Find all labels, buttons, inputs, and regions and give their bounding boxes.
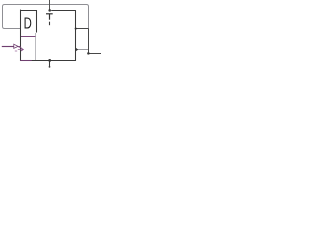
junction clock xyxy=(48,9,51,12)
svg-text:D: D xyxy=(24,15,32,33)
body bottom edge purple part xyxy=(20,60,32,62)
wire stub bottom xyxy=(49,61,51,68)
wire right vertical xyxy=(88,29,90,54)
wire exit right xyxy=(89,53,102,55)
body left edge xyxy=(20,10,22,61)
pin text smudge dash 3 xyxy=(15,50,17,52)
wire arrow tip to body xyxy=(18,46,21,48)
arrowhead input xyxy=(14,44,18,48)
label T bar xyxy=(46,13,53,15)
bar purple xyxy=(21,36,36,38)
pin text smudge dash 1 xyxy=(19,46,22,48)
label T stem xyxy=(49,14,51,20)
wire input purple xyxy=(2,46,14,48)
pin Q base dot xyxy=(75,28,77,30)
D box right edge xyxy=(36,10,38,32)
junction exit xyxy=(87,52,90,55)
label dash below T xyxy=(49,22,51,26)
pin text smudge dash 2 xyxy=(18,49,23,51)
junction bottom xyxy=(48,59,51,62)
pin Q xyxy=(76,28,89,30)
wire light Qbar pin xyxy=(78,49,89,51)
wire feedback loop (Q to D) xyxy=(3,5,89,29)
body right edge xyxy=(75,10,77,61)
body bottom edge gray part xyxy=(32,60,76,62)
body top edge segment 1 xyxy=(20,10,37,12)
chevron Qbar xyxy=(76,48,78,52)
chevron clock purple xyxy=(21,48,23,51)
wire clock from top xyxy=(49,0,51,10)
stub end blob xyxy=(49,66,51,68)
body top edge segment 2 xyxy=(51,10,76,12)
wire light vertical divider xyxy=(35,33,37,60)
